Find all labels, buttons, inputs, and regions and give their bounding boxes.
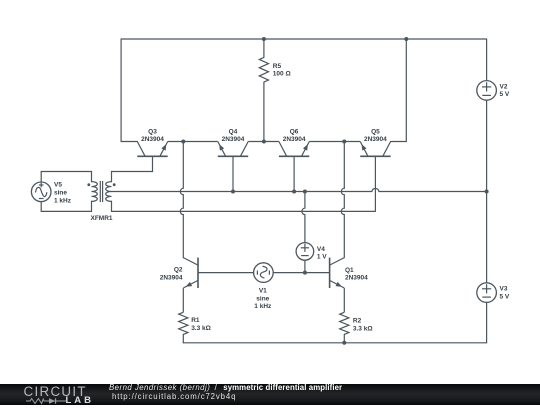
transformer XFMR1 left coil: [92, 182, 98, 202]
svg-text:2N3904: 2N3904: [364, 136, 387, 143]
wire Q3 base to transformer: [112, 156, 153, 181]
resistor R5: [263, 39, 265, 57]
transistor Q4: [218, 155, 248, 157]
transistor Q1: [329, 258, 331, 288]
svg-text:5 V: 5 V: [500, 91, 510, 98]
wire Q4 collector to Q6 collector: [248, 141, 279, 143]
transistor Q2: [197, 258, 199, 288]
svg-text:2N3904: 2N3904: [222, 136, 245, 143]
svg-text:XFMR1: XFMR1: [90, 215, 112, 222]
wire Q6/Q5 emitters down to Q1 collector: [341, 142, 344, 258]
resistor R1: [179, 312, 188, 334]
node top rail / Q5 collector junction: [404, 37, 408, 41]
svg-text:V5: V5: [54, 182, 62, 189]
svg-text:V1: V1: [259, 288, 267, 295]
node Q6/Q5 emitter junction: [342, 140, 346, 144]
svg-text:Q6: Q6: [290, 128, 299, 135]
node R2 bottom rail junction: [342, 341, 346, 345]
voltage source V4: [302, 192, 305, 243]
svg-text:R1: R1: [191, 317, 200, 324]
wire Q5 base: [374, 156, 376, 211]
node Q4 base junction: [231, 190, 235, 194]
svg-text:3.3 kΩ: 3.3 kΩ: [191, 325, 211, 332]
svg-text:sine: sine: [54, 190, 67, 197]
wire V5 bottom loop: [41, 201, 91, 211]
svg-text:Q4: Q4: [229, 128, 238, 135]
wire Q3 emitter to Q4 emitter: [168, 141, 218, 143]
transformer core: [99, 181, 101, 202]
node Q6 base junction: [292, 190, 296, 194]
transformer XFMR1 right coil: [106, 182, 112, 202]
transistor Q3: [137, 155, 167, 157]
svg-text:R5: R5: [273, 63, 282, 70]
voltage source V5: [31, 182, 51, 202]
svg-text:1 kHz: 1 kHz: [54, 197, 72, 204]
svg-text:sine: sine: [256, 295, 269, 302]
svg-text:Q3: Q3: [148, 128, 157, 135]
node V4 top junction: [303, 190, 307, 194]
node R5 bottom junction: [262, 140, 266, 144]
svg-text:V3: V3: [500, 286, 508, 293]
voltage source V3: [486, 192, 488, 283]
transformer phase dot left: [87, 183, 90, 186]
node V2/center-tap junction: [485, 190, 489, 194]
wire Q3/Q4 emitters down to Q2 collector: [180, 142, 183, 258]
transistor Q6: [279, 155, 309, 157]
svg-text:V4: V4: [317, 246, 325, 253]
node Q3/Q4 emitter junction: [181, 140, 185, 144]
svg-text:R2: R2: [353, 318, 362, 325]
svg-text:3.3 kΩ: 3.3 kΩ: [353, 326, 373, 333]
wire transformer bottom line: [112, 201, 376, 211]
svg-text:Q5: Q5: [371, 128, 380, 135]
node top rail / R5 junction: [262, 37, 266, 41]
svg-text:2N3904: 2N3904: [160, 274, 183, 281]
resistor R2: [340, 312, 349, 334]
wire Q6 emitter to Q5 emitter: [309, 141, 360, 143]
svg-text:2N3904: 2N3904: [283, 136, 306, 143]
wire V1 to Q1 base: [273, 272, 329, 274]
wire center tap line: [112, 189, 487, 192]
node V4 bottom junction: [303, 271, 307, 275]
wire Q1 emitter to R2: [343, 288, 345, 312]
wire Q2 emitter to R1: [182, 288, 184, 312]
transformer phase dot right: [113, 183, 116, 186]
svg-text:5 V: 5 V: [500, 293, 510, 300]
svg-text:100 Ω: 100 Ω: [273, 71, 291, 78]
voltage source V1: [254, 263, 274, 283]
wire V5 top loop: [41, 172, 91, 183]
wire Q6 base: [293, 156, 295, 191]
voltage source V2: [486, 39, 488, 81]
svg-text:2N3904: 2N3904: [345, 275, 368, 282]
wire top rail: [121, 38, 487, 40]
wire left drop to Q3 collector: [121, 39, 137, 142]
wire Q5 collector riser: [391, 39, 407, 142]
wire Q2 base to V1: [198, 272, 254, 274]
transistor Q5: [360, 155, 390, 157]
svg-text:1 V: 1 V: [317, 254, 327, 261]
svg-text:2N3904: 2N3904: [141, 136, 164, 143]
svg-text:Q1: Q1: [345, 267, 354, 274]
svg-text:1 kHz: 1 kHz: [254, 303, 272, 310]
svg-text:V2: V2: [500, 83, 508, 90]
svg-text:Q2: Q2: [174, 267, 183, 274]
wire Q4 base: [232, 156, 234, 191]
